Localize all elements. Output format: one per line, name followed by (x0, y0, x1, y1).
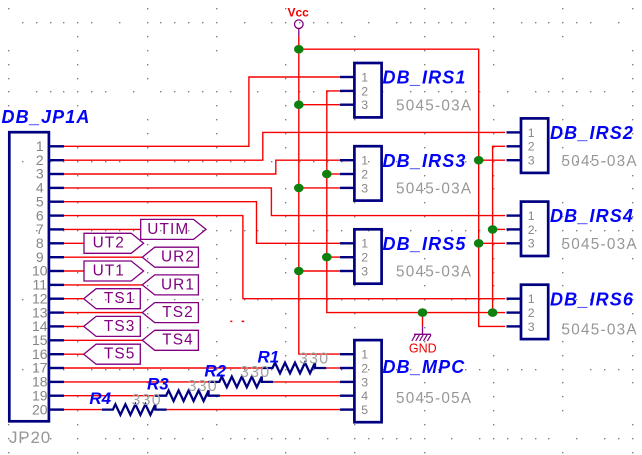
DB_MPC pin numbers (361, 348, 368, 417)
svg-text:3: 3 (528, 320, 535, 334)
port TS2 (142, 303, 198, 323)
wire Vcc to DB_IRS5 pin3 (299, 270, 340, 272)
port TS3 (84, 316, 141, 336)
port TS4 (142, 330, 198, 350)
wire JP20.15 to port TS4 (64, 339, 142, 341)
DB_IRS4 pin numbers (528, 209, 535, 251)
svg-text:330: 330 (240, 364, 270, 381)
svg-text:JP20: JP20 (9, 428, 51, 447)
connector DB_IRS1 (340, 63, 382, 117)
svg-text:5045-03A: 5045-03A (562, 322, 638, 339)
wire GND symbol tap (422, 313, 424, 327)
connector DB_IRS3 (340, 146, 382, 200)
svg-text:UR2: UR2 (161, 249, 195, 266)
connector DB_IRS6 (507, 285, 549, 339)
svg-text:Vcc: Vcc (288, 6, 310, 20)
svg-text:UTIM: UTIM (147, 221, 189, 238)
svg-text:2: 2 (528, 223, 535, 237)
wire JP20.5 to DB_IRS5 pin1 (64, 202, 340, 244)
svg-text:3: 3 (361, 264, 368, 278)
wire Vcc to DB_IRS4 pin3 (479, 242, 506, 244)
junction GND symbol tap (418, 308, 428, 317)
connector DB_IRS4 (507, 202, 549, 256)
svg-text:5045-03A: 5045-03A (562, 236, 638, 253)
wire GND to DB_IRS3 pin2 (327, 173, 340, 175)
svg-text:DB_IRS6: DB_IRS6 (550, 289, 634, 309)
wire JP20.14 to port TS3 (64, 325, 84, 327)
svg-text:3: 3 (361, 181, 368, 195)
wire JP20.9 to port UR2 (64, 256, 142, 258)
svg-text:UT2: UT2 (93, 235, 125, 252)
wire R3 to DB_MPC pin4 (220, 395, 340, 397)
svg-text:1: 1 (361, 154, 368, 168)
svg-text:UT1: UT1 (93, 262, 125, 279)
junction GND IRS5.2 (322, 253, 332, 262)
wire JP20.19 to R3 (64, 395, 155, 397)
svg-text:5045-03A: 5045-03A (396, 97, 472, 114)
svg-text:1: 1 (528, 209, 535, 223)
port UTIM (141, 219, 206, 239)
wire GND right rail to DB_IRS2 pin2 (493, 146, 506, 312)
wire Vcc to DB_IRS3 pin3 (299, 187, 340, 189)
DB_IRS1 pin numbers (361, 70, 368, 112)
port TS1 (84, 289, 141, 309)
wire JP20.18 to R2 (64, 381, 208, 383)
wire JP20.6 to DB_IRS6 pin1 (64, 216, 505, 299)
svg-text:GND: GND (409, 342, 437, 356)
wire JP20.3 to DB_IRS3 pin1 (64, 160, 340, 174)
wire GND to DB_IRS5 pin2 (327, 256, 340, 258)
svg-text:DB_IRS5: DB_IRS5 (383, 234, 467, 254)
svg-text:2: 2 (528, 140, 535, 154)
wire JP20.2 to DB_IRS2 pin1 (64, 132, 505, 160)
connector DB_IRS5 (340, 229, 382, 283)
resistor R2 (208, 377, 273, 388)
svg-text:5045-03A: 5045-03A (396, 181, 472, 198)
junction GND right rail (488, 308, 498, 317)
wire GND to DB_IRS4 pin2 (493, 228, 506, 230)
wire JP20.4 to DB_IRS4 pin1 (64, 188, 505, 216)
svg-text:20: 20 (32, 401, 48, 417)
wire Vcc top branch via right rail to DB_IRS6 pin3 (299, 49, 505, 326)
wire Vcc rail to DB_MPC pin1 (299, 36, 340, 354)
svg-text:DB_IRS2: DB_IRS2 (550, 123, 634, 143)
svg-text:5045-03A: 5045-03A (562, 153, 638, 170)
junction GND IRS4.2 (488, 225, 498, 234)
resistor R3 (155, 390, 220, 401)
wire JP20.1 to DB_IRS1 pin1 (64, 77, 340, 146)
DB_IRS6 pin numbers (528, 292, 535, 334)
wire JP20.17 to R1 (64, 367, 262, 369)
svg-text:UR1: UR1 (161, 276, 195, 293)
wire JP20.13 to port TS2 (64, 312, 142, 314)
svg-text:TS1: TS1 (104, 290, 136, 307)
svg-text:DB_MPC: DB_MPC (383, 357, 466, 377)
svg-text:330: 330 (299, 350, 329, 367)
svg-text:1: 1 (361, 348, 368, 362)
svg-text:3: 3 (361, 98, 368, 112)
wire Vcc to DB_IRS1 pin3 (299, 104, 340, 106)
junction Vcc IRS4.3 (474, 239, 484, 248)
wire JP20.7 to port UTIM (64, 228, 141, 230)
svg-text:3: 3 (528, 154, 535, 168)
svg-text:1: 1 (528, 126, 535, 140)
svg-text:2: 2 (361, 167, 368, 181)
svg-text:4: 4 (361, 389, 368, 403)
wire Vcc to DB_IRS2 pin3 (479, 159, 506, 161)
port UT2 (84, 233, 144, 253)
svg-text:5045-05A: 5045-05A (396, 390, 472, 407)
wire fragment artifact (230, 321, 232, 323)
svg-text:R4: R4 (89, 389, 111, 408)
wire JP20.12 to port TS1 (64, 298, 84, 300)
ground GND (409, 326, 437, 355)
port TS5 (84, 344, 141, 364)
svg-text:5: 5 (361, 403, 368, 417)
wire JP20.10 to port UT1 (64, 270, 84, 272)
DB_IRS3 pin numbers (361, 154, 368, 196)
svg-text:3: 3 (361, 375, 368, 389)
port UT1 (84, 261, 144, 281)
svg-text:TS5: TS5 (104, 346, 136, 363)
wire R1 to DB_MPC pin2 (326, 367, 340, 369)
connector DB_IRS2 (507, 118, 549, 172)
svg-text:DB_IRS1: DB_IRS1 (383, 68, 467, 88)
svg-text:330: 330 (188, 378, 218, 395)
connector DB_MPC (340, 340, 382, 422)
svg-text:330: 330 (132, 392, 162, 409)
port UR2 (142, 247, 198, 267)
wire JP20.16 to port TS5 (64, 353, 84, 355)
svg-text:2: 2 (361, 251, 368, 265)
DB_IRS5 pin numbers (361, 237, 368, 279)
resistor R4 (102, 404, 167, 415)
power symbol Vcc (288, 6, 310, 37)
svg-text:3: 3 (528, 237, 535, 251)
junction Vcc IRS1.3 (294, 100, 304, 109)
wire R2 to DB_MPC pin3 (273, 381, 340, 383)
junction Vcc top (294, 45, 304, 54)
junction GND IRS3.2 (322, 170, 332, 179)
wire JP20.11 to port UR1 (64, 284, 142, 286)
svg-text:DB_IRS3: DB_IRS3 (383, 151, 467, 171)
svg-text:1: 1 (361, 237, 368, 251)
svg-text:TS4: TS4 (162, 332, 194, 349)
port UR1 (142, 275, 198, 295)
wire R4 to DB_MPC pin5 (167, 409, 340, 411)
svg-text:DB_IRS4: DB_IRS4 (550, 206, 634, 226)
resistor R1 (262, 363, 327, 374)
svg-text:2: 2 (528, 306, 535, 320)
wire JP20.8 to port UT2 (64, 242, 84, 244)
junction Vcc IRS2.3 (474, 156, 484, 165)
svg-text:2: 2 (361, 84, 368, 98)
connector JP20 (9, 132, 64, 421)
svg-text:5045-03A: 5045-03A (396, 264, 472, 281)
svg-text:DB_JP1A: DB_JP1A (2, 107, 91, 127)
junction Vcc IRS3.3 (294, 184, 304, 193)
svg-text:R3: R3 (147, 375, 169, 394)
wire GND rail from DB_IRS1 pin2 to DB_IRS6 pin2 (327, 91, 505, 313)
wire JP20.20 to R4 (64, 409, 102, 411)
svg-text:TS2: TS2 (162, 304, 194, 321)
svg-text:2: 2 (361, 361, 368, 375)
svg-text:1: 1 (528, 292, 535, 306)
DB_IRS2 pin numbers (528, 126, 535, 168)
svg-text:1: 1 (361, 70, 368, 84)
JP20 pin numbers (32, 138, 48, 417)
junction Vcc IRS5.3 (294, 267, 304, 276)
svg-text:TS3: TS3 (104, 318, 136, 335)
